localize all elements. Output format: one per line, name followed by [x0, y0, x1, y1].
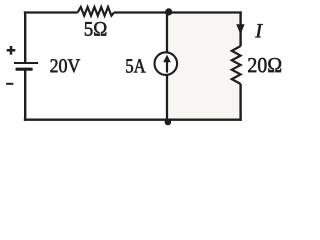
wire bottom segment: [24, 119, 242, 121]
battery V1 negative plate: [17, 68, 31, 71]
current source I1 circle: [155, 52, 178, 75]
battery minus sign: [6, 83, 13, 85]
current label I: [255, 24, 263, 37]
node dot bottom junction: [165, 119, 172, 126]
wire right upper segment: [239, 11, 241, 46]
wire middle branch upper segment: [166, 12, 168, 53]
wire middle branch lower segment: [166, 75, 168, 121]
node dot top junction: [165, 8, 172, 15]
wire left upper segment: [24, 11, 26, 63]
current source I1 arrow: [166, 61, 168, 73]
current source value label 5A: [126, 59, 145, 72]
resistor R1 value label 5ohm: [85, 22, 106, 36]
battery V1 positive plate: [14, 62, 38, 64]
wire top-right segment: [114, 11, 242, 13]
wire right lower segment: [239, 84, 241, 121]
battery plus sign: [7, 46, 16, 55]
current arrow I on right branch: [236, 24, 244, 34]
resistor R2 value label 20ohm: [248, 58, 281, 72]
resistor R2 20ohm zigzag: [232, 46, 241, 84]
wire top-left segment: [24, 11, 78, 13]
wire left lower segment: [24, 69, 26, 121]
battery value label 20V: [50, 59, 80, 72]
resistor R1 5ohm zigzag: [78, 7, 114, 16]
